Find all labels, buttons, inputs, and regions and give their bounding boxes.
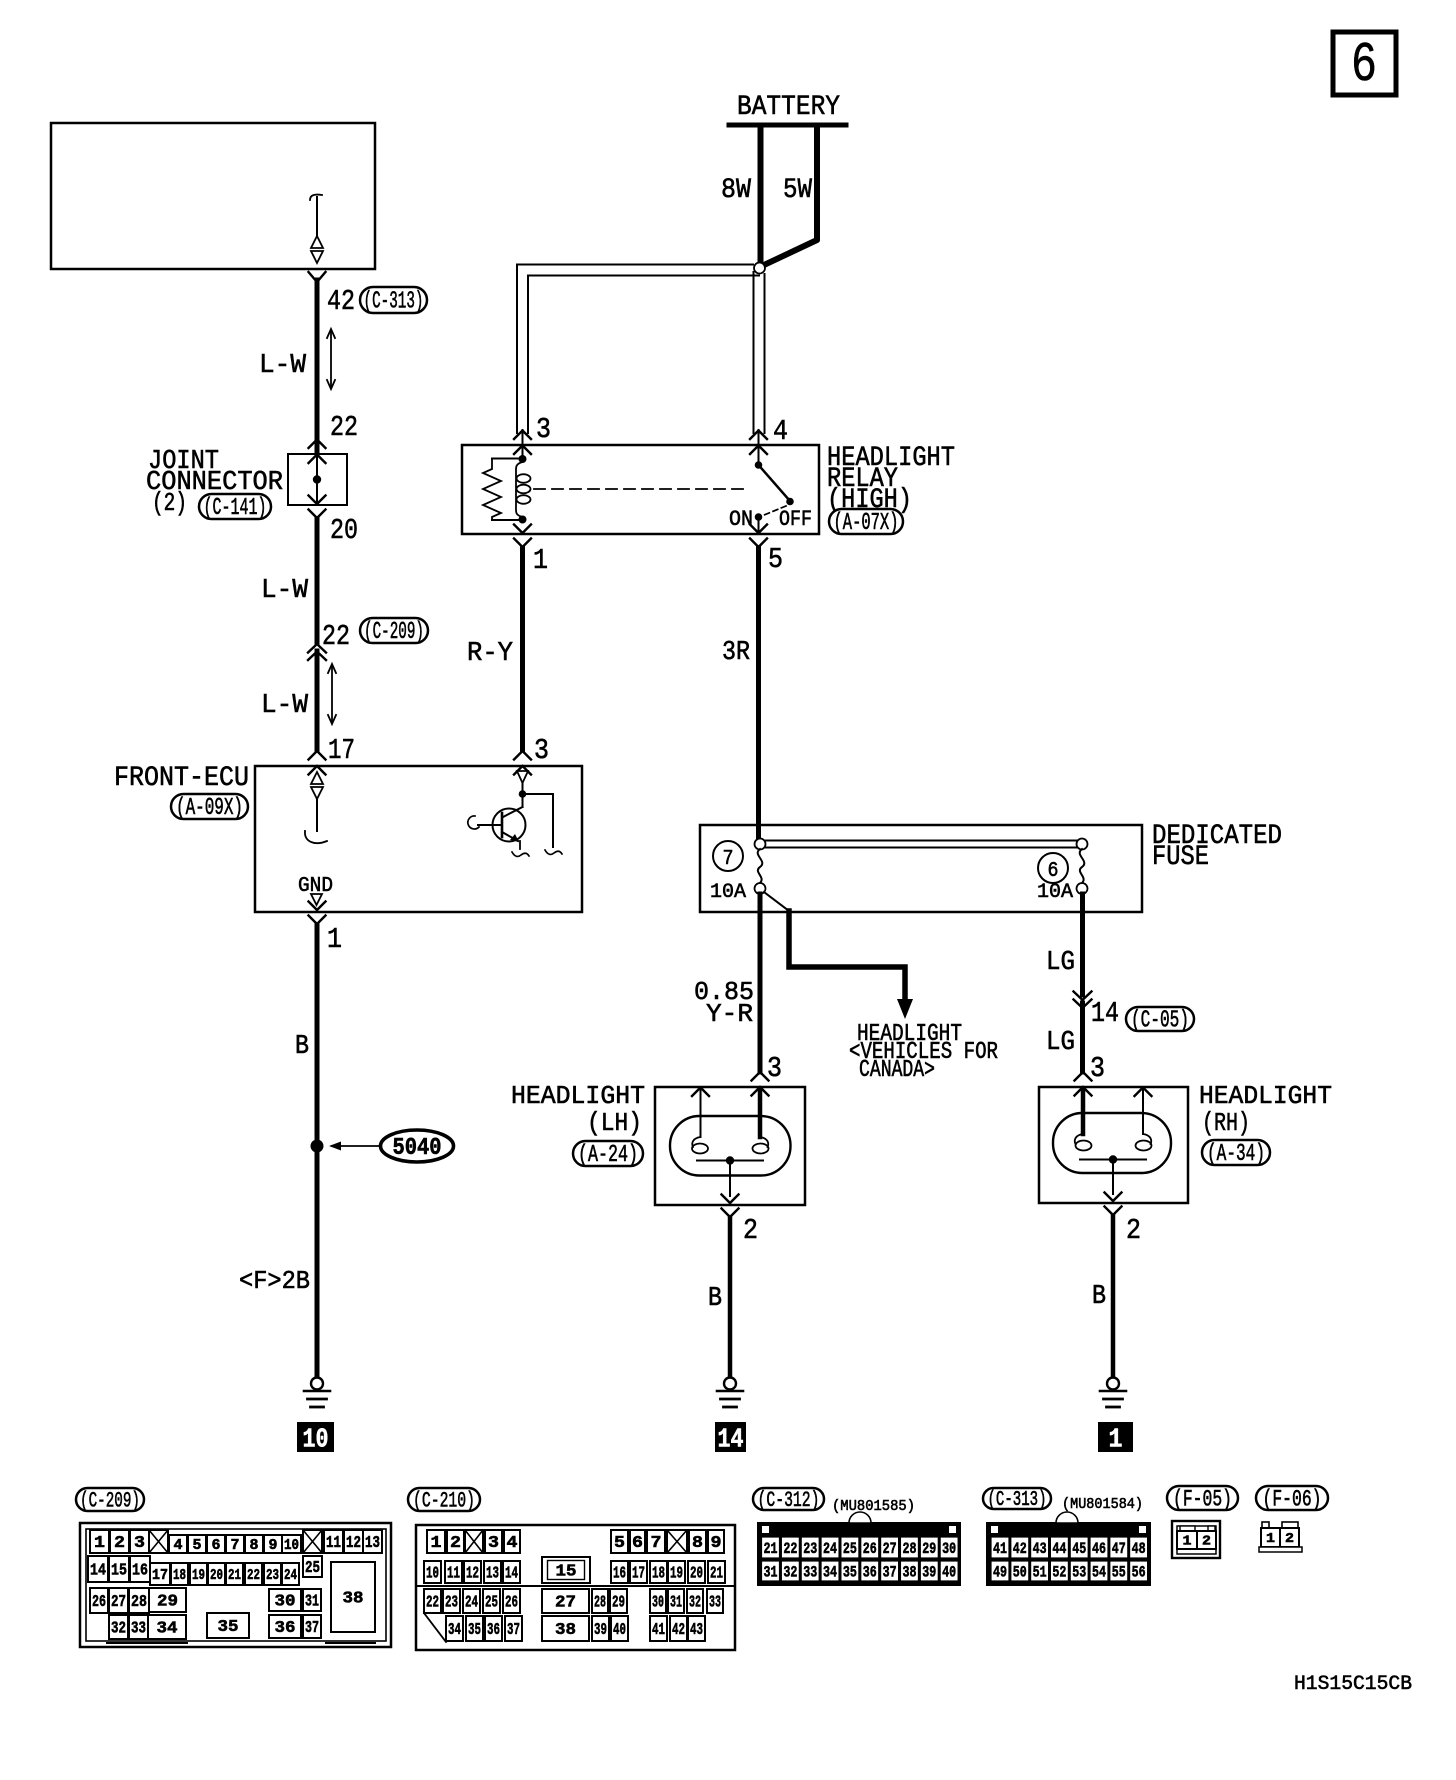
svg-text:2: 2 <box>1202 1534 1211 1550</box>
svg-text:L-W: L-W <box>261 576 309 606</box>
svg-text:22: 22 <box>783 1540 797 1558</box>
svg-text:38: 38 <box>343 1590 364 1609</box>
ECU pin 3 label <box>514 734 549 775</box>
fuse label <box>1152 821 1282 873</box>
svg-text:HEADLIGHT: HEADLIGHT <box>1199 1081 1332 1111</box>
svg-text:37: 37 <box>507 1621 520 1640</box>
wire label L-W <box>261 691 309 721</box>
pin 42 exit fork <box>309 272 326 282</box>
svg-text:FUSE: FUSE <box>1152 842 1209 873</box>
svg-text:(F-06): (F-06) <box>1263 1486 1322 1512</box>
svg-text:39: 39 <box>594 1621 607 1640</box>
pin 17 label <box>328 734 355 767</box>
svg-text:2: 2 <box>1126 1214 1141 1247</box>
hollow wire battery to relay pin 4 <box>754 272 765 433</box>
LH pin 3 entry <box>752 1052 783 1096</box>
svg-text:11: 11 <box>326 1534 341 1553</box>
battery leg 5W <box>763 127 817 266</box>
svg-text:20: 20 <box>690 1565 703 1584</box>
relay pin 1 exit <box>514 525 548 578</box>
svg-text:2: 2 <box>450 1534 461 1553</box>
wire L-W lower segment <box>315 651 320 750</box>
relay name label <box>827 443 955 516</box>
svg-text:32: 32 <box>783 1563 797 1581</box>
svg-text:(C-313): (C-313) <box>364 289 424 316</box>
svg-text:19: 19 <box>192 1567 205 1584</box>
wire label LG <box>1046 1028 1075 1058</box>
FRONT-ECU label <box>114 763 249 794</box>
svg-text:18: 18 <box>173 1567 186 1584</box>
connector A-09X label <box>171 794 248 822</box>
svg-text:(A-34): (A-34) <box>1207 1141 1265 1168</box>
svg-text:32: 32 <box>111 1620 126 1639</box>
svg-text:49: 49 <box>993 1563 1007 1581</box>
connector C-05 label <box>1126 1007 1194 1035</box>
connector F-05 label (pinout) <box>1167 1486 1238 1512</box>
svg-text:13: 13 <box>365 1534 380 1553</box>
svg-text:(LH): (LH) <box>587 1108 642 1138</box>
battery junction node <box>754 263 765 274</box>
connector A-34 label <box>1202 1140 1270 1168</box>
connector F-06 pinout <box>1259 1522 1302 1552</box>
hollow wire battery to relay pin 3 <box>517 265 759 434</box>
pin 20 exit <box>309 496 359 548</box>
svg-text:HEADLIGHT: HEADLIGHT <box>511 1081 645 1111</box>
connector C-313 label <box>360 287 427 316</box>
svg-text:26: 26 <box>92 1593 106 1612</box>
svg-text:41: 41 <box>652 1621 665 1640</box>
wire label <F>2B <box>239 1266 310 1296</box>
svg-text:26: 26 <box>863 1540 877 1558</box>
svg-text:16: 16 <box>132 1562 148 1581</box>
direction arrow <box>328 664 336 724</box>
svg-text:55: 55 <box>1112 1563 1126 1581</box>
svg-text:3: 3 <box>1090 1052 1105 1085</box>
svg-text:ON: ON <box>729 507 753 532</box>
svg-text:3: 3 <box>134 1534 145 1553</box>
connector C-313 pinout <box>987 1512 1150 1585</box>
svg-text:27: 27 <box>111 1593 126 1612</box>
svg-text:38: 38 <box>902 1563 916 1581</box>
wire label 0.85 Y-R <box>694 977 754 1029</box>
svg-text:(C-209): (C-209) <box>364 619 424 646</box>
svg-text:5: 5 <box>193 1537 202 1554</box>
dedicated fuse box <box>700 825 1142 912</box>
svg-text:1: 1 <box>533 544 548 577</box>
svg-text:12: 12 <box>466 1565 479 1584</box>
svg-text:3: 3 <box>488 1534 499 1553</box>
connector C-312 pinout <box>758 1512 960 1585</box>
svg-text:(C-05): (C-05) <box>1131 1008 1189 1035</box>
svg-text:50: 50 <box>1013 1563 1027 1581</box>
svg-text:L-W: L-W <box>259 351 307 381</box>
LH pin 2 exit <box>722 1195 759 1248</box>
svg-text:(RH): (RH) <box>1202 1108 1250 1138</box>
svg-text:20: 20 <box>330 514 358 547</box>
relay ON OFF labels <box>729 507 812 532</box>
svg-text:25: 25 <box>843 1540 857 1558</box>
pin 42 label <box>327 285 355 318</box>
svg-text:15: 15 <box>111 1562 127 1581</box>
svg-text:21: 21 <box>710 1565 723 1584</box>
dimmer switch contact inside unit <box>310 195 323 263</box>
svg-text:8: 8 <box>250 1537 259 1554</box>
svg-text:2: 2 <box>114 1534 125 1553</box>
svg-text:18: 18 <box>652 1565 665 1584</box>
svg-text:33: 33 <box>709 1594 721 1613</box>
svg-text:42: 42 <box>327 285 355 318</box>
connector C-210 label (pinout) <box>408 1488 480 1514</box>
wire B to ground <box>315 925 320 1377</box>
ECU internal input triangles <box>305 772 327 843</box>
svg-text:37: 37 <box>883 1563 897 1581</box>
wire label 5W <box>783 175 812 206</box>
svg-text:30: 30 <box>942 1540 956 1558</box>
svg-text:22: 22 <box>247 1567 260 1584</box>
svg-text:12: 12 <box>346 1534 361 1553</box>
svg-text:13: 13 <box>486 1565 499 1584</box>
svg-text:23: 23 <box>445 1594 458 1613</box>
wire 3R <box>756 548 761 839</box>
svg-text:38: 38 <box>555 1621 576 1640</box>
ECU collector branch to internal ground <box>523 794 563 854</box>
svg-text:1: 1 <box>1109 1426 1123 1456</box>
column switch unit box <box>51 123 375 269</box>
svg-text:(A-09X): (A-09X) <box>176 795 243 822</box>
fuse bus bar <box>755 839 1088 850</box>
svg-text:1: 1 <box>1266 1531 1275 1547</box>
svg-text:30: 30 <box>275 1593 296 1612</box>
svg-text:21: 21 <box>764 1540 778 1558</box>
headlight RH A-34 box <box>1039 1087 1188 1203</box>
svg-text:37: 37 <box>305 1619 319 1638</box>
svg-text:22: 22 <box>330 411 358 444</box>
svg-text:25: 25 <box>485 1594 498 1613</box>
svg-text:51: 51 <box>1033 1563 1047 1581</box>
svg-text:14: 14 <box>1091 997 1119 1030</box>
wire L-W middle segment <box>315 519 320 643</box>
svg-text:52: 52 <box>1052 1563 1066 1581</box>
svg-text:47: 47 <box>1112 1540 1126 1558</box>
ground ref box 10 <box>297 1422 334 1456</box>
svg-text:40: 40 <box>613 1621 626 1640</box>
svg-text:23: 23 <box>266 1567 279 1584</box>
svg-text:(MU801584): (MU801584) <box>1062 1496 1143 1513</box>
wire LG upper <box>1080 894 1085 995</box>
svg-text:25: 25 <box>305 1559 320 1578</box>
svg-text:(C-141): (C-141) <box>204 495 267 522</box>
svg-text:46: 46 <box>1092 1540 1106 1558</box>
svg-text:5: 5 <box>614 1534 625 1553</box>
connector F-05 pinout <box>1172 1521 1220 1558</box>
svg-text:35: 35 <box>218 1618 239 1637</box>
svg-text:30: 30 <box>652 1594 664 1613</box>
ECU GND pin 1 exit <box>309 902 343 957</box>
connector C-141 label <box>199 494 271 522</box>
ground (left) <box>304 1378 330 1408</box>
svg-text:7: 7 <box>651 1534 662 1553</box>
svg-text:1: 1 <box>94 1534 105 1553</box>
svg-text:14: 14 <box>505 1565 518 1584</box>
svg-text:10A: 10A <box>710 881 746 904</box>
wire 0.85 Y-R <box>758 894 763 1072</box>
wire label 3R <box>722 638 750 668</box>
RH pin 2 exit <box>1105 1193 1142 1248</box>
connector F-06 label (pinout) <box>1256 1486 1328 1512</box>
svg-text:B: B <box>708 1284 722 1314</box>
wire R-Y <box>520 548 525 750</box>
svg-text:BATTERY: BATTERY <box>737 92 840 123</box>
svg-text:26: 26 <box>505 1594 518 1613</box>
relay resistor <box>483 459 521 521</box>
FRONT-ECU A-09X box <box>255 766 582 912</box>
svg-text:17: 17 <box>152 1567 168 1584</box>
fuse 6 10A <box>1037 849 1088 904</box>
svg-text:R-Y: R-Y <box>467 639 513 669</box>
wire label 8W <box>721 175 751 206</box>
svg-text:3: 3 <box>767 1052 782 1085</box>
svg-text:B: B <box>1092 1282 1106 1312</box>
svg-text:31: 31 <box>764 1563 778 1581</box>
RH pin 3 entry <box>1075 1052 1106 1096</box>
inline connector 14 C-05 <box>1074 992 1120 1031</box>
drawing code H1S15C15CB <box>1294 1673 1412 1696</box>
relay pin 5 exit <box>750 525 783 577</box>
headlight LH label <box>511 1081 645 1138</box>
svg-text:16: 16 <box>613 1565 626 1584</box>
svg-text:9: 9 <box>711 1534 722 1553</box>
svg-text:31: 31 <box>305 1593 319 1612</box>
svg-text:7: 7 <box>723 848 734 871</box>
svg-text:6: 6 <box>632 1534 643 1553</box>
page number 6 box <box>1333 32 1396 97</box>
svg-text:10A: 10A <box>1037 881 1073 904</box>
relay switch <box>755 445 794 533</box>
ECU pin 17 entry <box>309 751 326 775</box>
svg-text:34: 34 <box>157 1620 178 1639</box>
svg-text:5W: 5W <box>783 175 812 206</box>
ECU GND branch <box>298 875 333 905</box>
splice 5040 callout <box>329 1130 454 1162</box>
svg-text:10: 10 <box>284 1537 299 1554</box>
svg-text:23: 23 <box>803 1540 817 1558</box>
svg-text:43: 43 <box>1033 1540 1047 1558</box>
svg-text:10: 10 <box>303 1426 329 1456</box>
connector A-07X label <box>829 509 903 537</box>
headlight vehicles-for-canada branch <box>764 892 913 1019</box>
svg-text:17: 17 <box>328 734 355 767</box>
relay actuation dashed link <box>534 488 750 490</box>
svg-text:39: 39 <box>922 1563 936 1581</box>
svg-text:45: 45 <box>1072 1540 1086 1558</box>
svg-text:4: 4 <box>507 1534 518 1553</box>
svg-text:20: 20 <box>210 1567 223 1584</box>
svg-text:1: 1 <box>1183 1534 1192 1550</box>
LH bulb <box>670 1088 791 1197</box>
headlight RH label <box>1199 1081 1332 1138</box>
svg-text:(C-210): (C-210) <box>413 1489 475 1514</box>
svg-text:(2): (2) <box>152 488 187 518</box>
svg-text:(C-312): (C-312) <box>758 1488 820 1513</box>
svg-text:28: 28 <box>594 1594 606 1613</box>
svg-text:8: 8 <box>692 1534 703 1553</box>
inline connector 22 C-209 <box>308 620 350 660</box>
svg-text:28: 28 <box>902 1540 916 1558</box>
connector C-209 pinout <box>80 1523 391 1647</box>
svg-text:35: 35 <box>468 1621 481 1640</box>
svg-text:22: 22 <box>322 620 350 653</box>
wire label L-W <box>261 576 309 606</box>
pin 22 label <box>330 411 358 444</box>
svg-text:5: 5 <box>768 543 783 576</box>
relay pin 3 entry <box>514 413 551 456</box>
svg-text:53: 53 <box>1072 1563 1086 1581</box>
svg-text:3R: 3R <box>722 638 750 668</box>
RH bulb <box>1053 1088 1171 1195</box>
connector C-209 label (pinout) <box>76 1488 144 1514</box>
svg-text:44: 44 <box>1052 1540 1066 1558</box>
svg-text:(A-24): (A-24) <box>578 1142 638 1169</box>
svg-text:56: 56 <box>1132 1563 1146 1581</box>
svg-text:22: 22 <box>426 1594 439 1613</box>
headlight relay (high) A-07X box <box>462 445 819 534</box>
svg-text:24: 24 <box>823 1540 837 1558</box>
svg-text:19: 19 <box>670 1565 683 1584</box>
ground (LH) <box>717 1378 743 1408</box>
svg-text:(C-209): (C-209) <box>80 1489 140 1514</box>
svg-text:H1S15C15CB: H1S15C15CB <box>1294 1673 1412 1696</box>
svg-text:33: 33 <box>803 1563 817 1581</box>
svg-text:29: 29 <box>157 1593 178 1612</box>
svg-text:7: 7 <box>231 1537 240 1554</box>
canada branch label <box>849 1021 998 1084</box>
svg-text:33: 33 <box>131 1620 146 1639</box>
relay pin 4 entry <box>750 415 788 462</box>
wire label L-W <box>259 351 307 381</box>
connector C-210 pinout <box>416 1525 735 1650</box>
svg-text:41: 41 <box>993 1540 1007 1558</box>
svg-text:1: 1 <box>327 923 342 956</box>
battery <box>729 92 846 125</box>
battery leg 8W <box>758 127 764 264</box>
svg-text:24: 24 <box>465 1594 478 1613</box>
svg-text:21: 21 <box>228 1567 241 1584</box>
RH wire B <box>1092 1216 1113 1377</box>
svg-text:54: 54 <box>1092 1563 1106 1581</box>
svg-text:48: 48 <box>1132 1540 1146 1558</box>
relay coil <box>516 455 531 524</box>
svg-text:43: 43 <box>690 1621 703 1640</box>
svg-text:29: 29 <box>922 1540 936 1558</box>
svg-text:24: 24 <box>284 1567 297 1584</box>
ECU output transistor <box>468 794 529 856</box>
svg-text:L-W: L-W <box>261 691 309 721</box>
svg-text:10: 10 <box>426 1565 439 1584</box>
ECU pin 3 entry triangle <box>517 771 528 798</box>
LH wire B <box>708 1218 730 1377</box>
svg-text:17: 17 <box>632 1565 645 1584</box>
connector C-312 label (pinout) <box>753 1488 915 1515</box>
svg-text:3: 3 <box>534 734 549 767</box>
svg-text:2: 2 <box>743 1214 758 1247</box>
svg-text:35: 35 <box>843 1563 857 1581</box>
svg-text:OFF: OFF <box>779 507 812 532</box>
svg-text:31: 31 <box>670 1594 682 1613</box>
svg-text:32: 32 <box>689 1594 701 1613</box>
connector A-24 label <box>573 1141 643 1169</box>
svg-text:36: 36 <box>863 1563 877 1581</box>
svg-text:6: 6 <box>1351 33 1377 97</box>
svg-text:6: 6 <box>1048 860 1059 883</box>
direction arrow <box>327 329 335 389</box>
wire label R-Y <box>467 639 513 669</box>
svg-text:34: 34 <box>448 1621 461 1640</box>
wire label B <box>295 1032 309 1062</box>
svg-text:4: 4 <box>174 1537 183 1554</box>
ground ref box 14 <box>715 1422 746 1456</box>
joint connector label <box>146 447 283 518</box>
ground ref box 1 <box>1098 1422 1133 1456</box>
svg-text:36: 36 <box>487 1621 500 1640</box>
svg-text:(A-07X): (A-07X) <box>834 510 899 537</box>
connector C-209 label <box>360 618 428 646</box>
splice node <box>311 1140 324 1153</box>
svg-text:(C-313): (C-313) <box>988 1489 1047 1512</box>
svg-text:5040: 5040 <box>393 1135 442 1162</box>
svg-text:2: 2 <box>1285 1531 1294 1547</box>
wire LG lower <box>1080 1003 1085 1072</box>
svg-text:14: 14 <box>718 1426 744 1456</box>
svg-text:Y-R: Y-R <box>706 999 753 1029</box>
svg-text:1: 1 <box>431 1534 442 1553</box>
svg-text:6: 6 <box>212 1537 221 1554</box>
svg-text:40: 40 <box>942 1563 956 1581</box>
svg-text:CANADA>: CANADA> <box>859 1057 935 1084</box>
headlight LH A-24 box <box>655 1087 805 1205</box>
connector C-313 label (pinout) <box>983 1488 1143 1513</box>
svg-text:(MU801585): (MU801585) <box>832 1498 915 1515</box>
svg-text:14: 14 <box>90 1562 106 1581</box>
svg-text:42: 42 <box>672 1621 685 1640</box>
ground (RH) <box>1100 1378 1126 1408</box>
svg-text:28: 28 <box>131 1593 147 1612</box>
svg-text:FRONT-ECU: FRONT-ECU <box>114 763 249 794</box>
svg-text:27: 27 <box>883 1540 897 1558</box>
svg-text:15: 15 <box>556 1563 577 1582</box>
svg-text:34: 34 <box>823 1563 837 1581</box>
svg-text:B: B <box>295 1032 309 1062</box>
wire L-W upper segment <box>315 280 320 452</box>
svg-text:27: 27 <box>555 1594 576 1613</box>
joint connector (2) C-141 box <box>288 440 347 506</box>
svg-text:4: 4 <box>773 415 788 448</box>
svg-text:3: 3 <box>536 413 551 446</box>
svg-text:(F-05): (F-05) <box>1173 1486 1232 1512</box>
fuse 7 10A <box>710 841 766 904</box>
svg-text:8W: 8W <box>721 175 751 206</box>
svg-text:<F>2B: <F>2B <box>239 1266 310 1296</box>
svg-text:11: 11 <box>447 1565 460 1584</box>
svg-text:9: 9 <box>269 1537 278 1554</box>
svg-text:29: 29 <box>612 1594 625 1613</box>
svg-text:36: 36 <box>275 1619 296 1638</box>
svg-text:LG: LG <box>1046 1028 1075 1058</box>
svg-text:LG: LG <box>1046 948 1075 978</box>
svg-text:42: 42 <box>1013 1540 1027 1558</box>
wire label LG <box>1046 948 1075 978</box>
